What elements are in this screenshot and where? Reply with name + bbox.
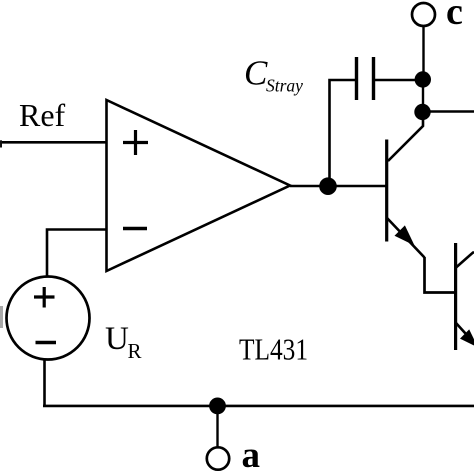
- terminal c: [412, 3, 435, 26]
- terminal a: [207, 447, 229, 469]
- wire capacitor right: [374, 79, 424, 82]
- svg-text:Stray: Stray: [266, 76, 303, 96]
- wire c to node: [422, 26, 424, 79]
- svg-text:a: a: [242, 435, 261, 474]
- artifact grey mark left edge: [0, 306, 3, 328]
- wire capacitor left leg: [330, 80, 357, 186]
- wire op-amp output to Q1 base: [290, 185, 387, 188]
- junction dot bottom: [209, 398, 226, 415]
- junction dot collector node: [414, 104, 430, 120]
- wire Q1 emitter to Q2 base: [425, 257, 456, 293]
- voltage source U_R: [7, 277, 90, 360]
- svg-text:TL431: TL431: [239, 332, 308, 367]
- wire inverting input: [47, 230, 106, 277]
- node Ref edge stub: [0, 140, 2, 147]
- svg-text:c: c: [446, 0, 463, 33]
- svg-text:U: U: [105, 321, 129, 357]
- op-amp U1: [107, 100, 291, 271]
- wire between dots: [422, 79, 424, 112]
- capacitor C_Stray: [357, 57, 374, 100]
- wire to terminal a: [216, 405, 218, 447]
- wire Ref input: [0, 141, 106, 144]
- svg-text:Ref: Ref: [19, 97, 66, 133]
- transistor Q1: [387, 112, 425, 258]
- junction dot output node: [319, 177, 337, 195]
- transistor Q2: [456, 243, 474, 350]
- wire collector node to right edge: [423, 110, 474, 112]
- wire source to ground rail: [43, 361, 46, 407]
- wire bottom rail: [43, 405, 474, 408]
- svg-text:R: R: [128, 339, 142, 363]
- svg-text:C: C: [244, 53, 268, 92]
- junction dot cap node: [415, 71, 431, 87]
